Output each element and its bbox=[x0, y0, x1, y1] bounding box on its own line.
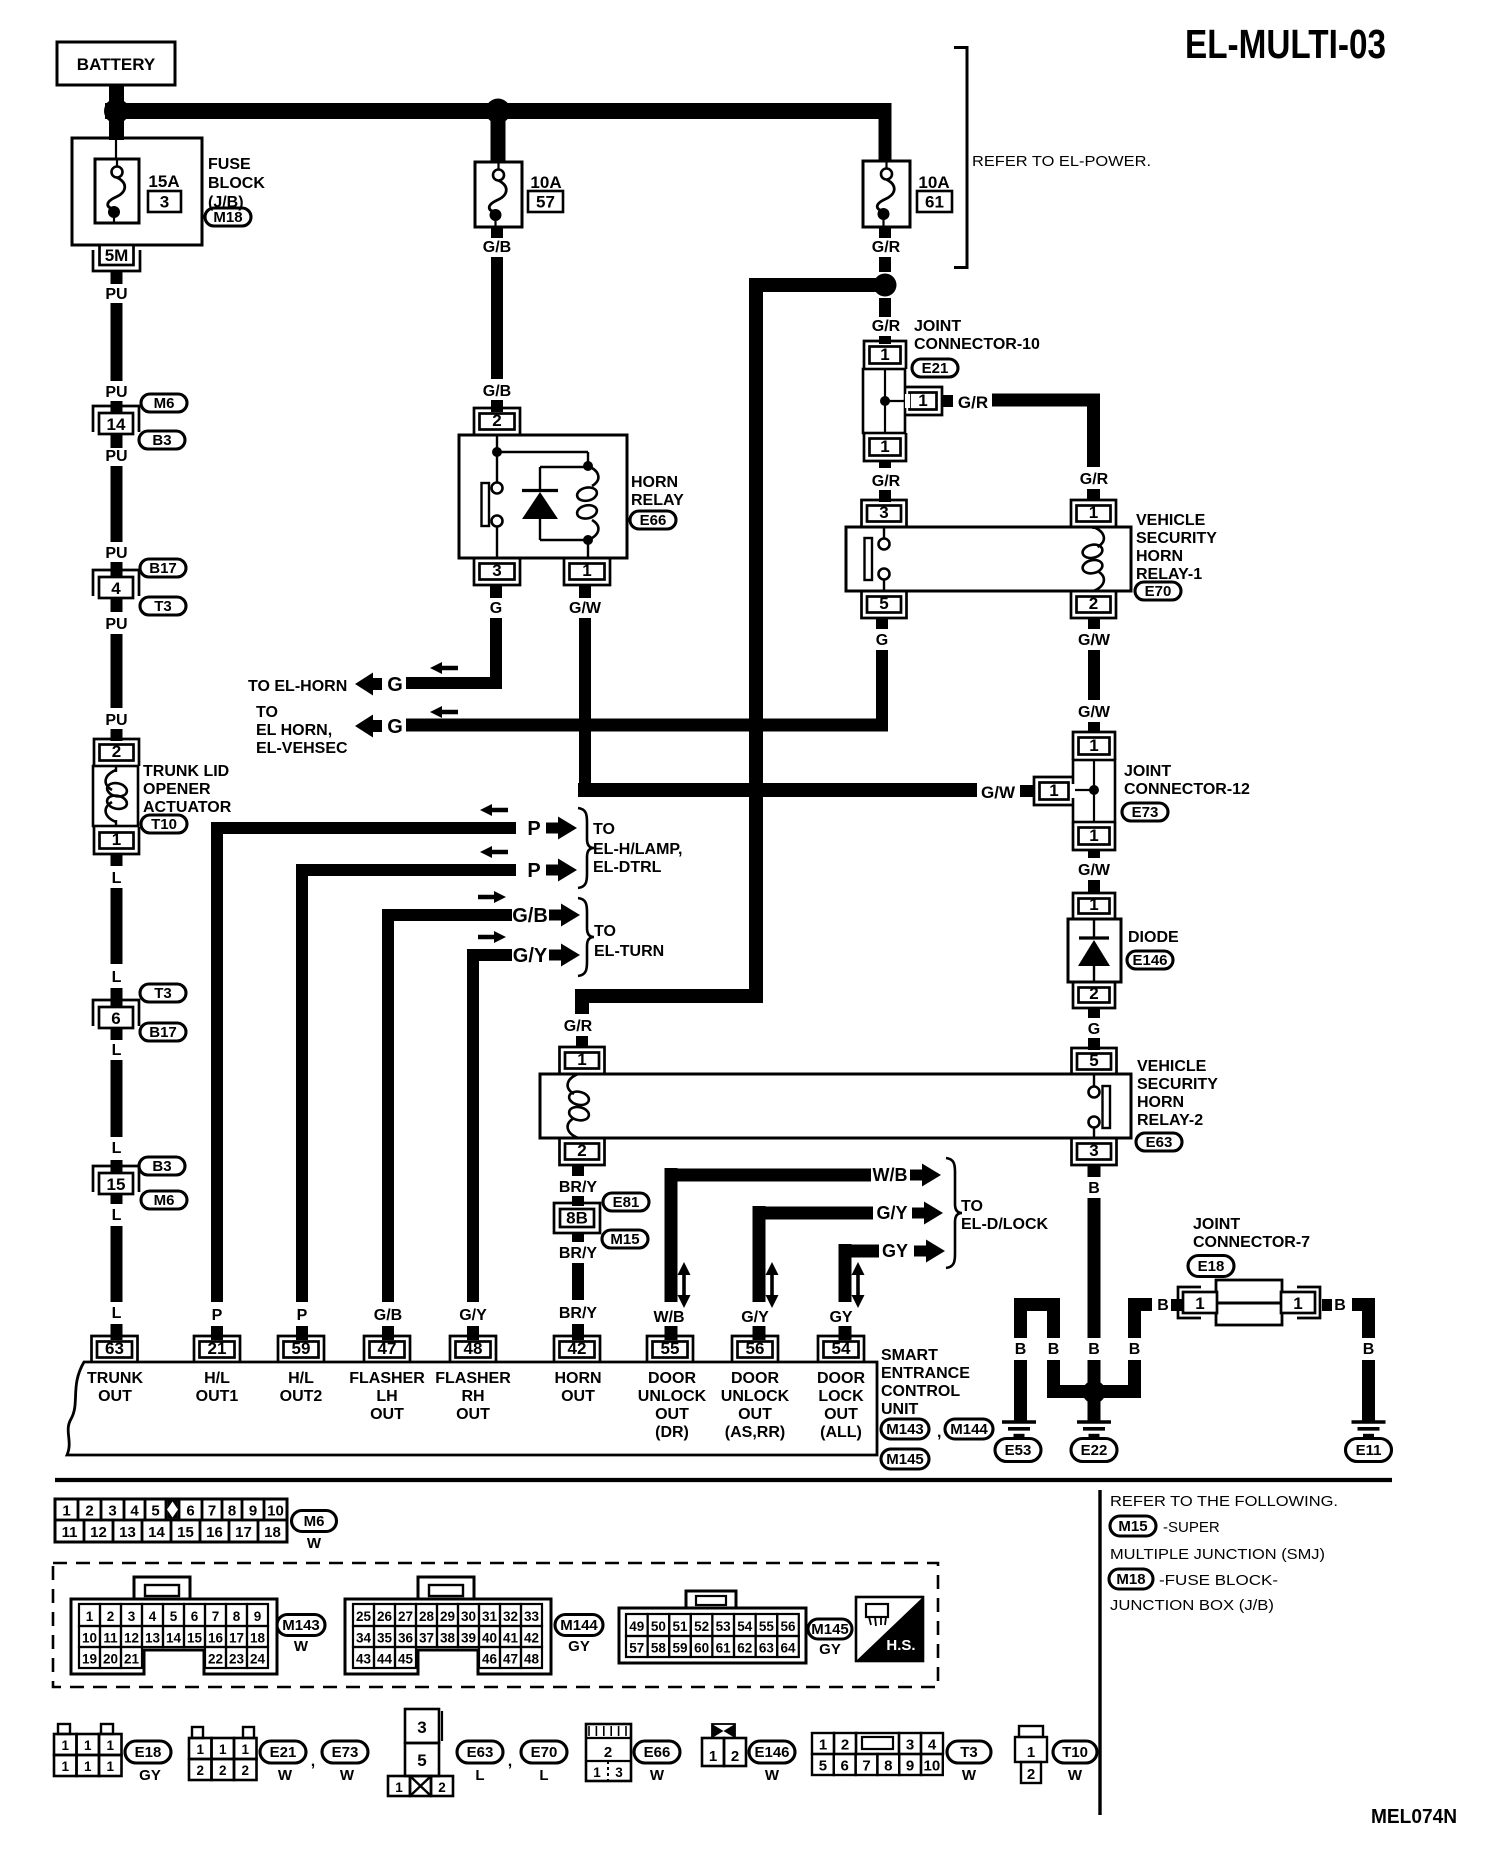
svg-text:L: L bbox=[112, 1140, 122, 1157]
connector ref T3 bbox=[140, 984, 186, 1002]
svg-text:FLASHER: FLASHER bbox=[435, 1370, 511, 1387]
connector 5M bbox=[93, 250, 140, 271]
wire stub above trunk lid actuator bbox=[111, 729, 123, 741]
svg-text:G/B: G/B bbox=[374, 1307, 402, 1324]
svg-text:5: 5 bbox=[417, 1751, 426, 1770]
svg-text:H/L: H/L bbox=[204, 1370, 230, 1387]
svg-text:G/Y: G/Y bbox=[741, 1309, 769, 1326]
svg-text:8B: 8B bbox=[566, 1209, 588, 1228]
svg-text:E70: E70 bbox=[1145, 583, 1172, 600]
connector M145 grid bbox=[686, 1591, 736, 1608]
svg-text:CONNECTOR-10: CONNECTOR-10 bbox=[914, 336, 1040, 353]
connector ref T10 bbox=[1053, 1741, 1097, 1763]
svg-text:14: 14 bbox=[107, 415, 126, 434]
connector T10 grid bbox=[1019, 1726, 1043, 1737]
wire stub above 8B bbox=[572, 1196, 584, 1206]
connector ref M145 bbox=[881, 1449, 929, 1469]
svg-text:E70: E70 bbox=[531, 1744, 558, 1761]
svg-text:E146: E146 bbox=[1132, 952, 1167, 969]
svg-text:13: 13 bbox=[145, 1631, 161, 1646]
arrow small above g wire bbox=[430, 662, 458, 674]
svg-text:47: 47 bbox=[378, 1339, 397, 1358]
svg-text:51: 51 bbox=[672, 1619, 688, 1634]
wire bus drop to fuse 57 bbox=[491, 119, 506, 163]
svg-text:T3: T3 bbox=[154, 985, 172, 1002]
svg-text:G: G bbox=[387, 716, 403, 738]
svg-text:RELAY-2: RELAY-2 bbox=[1137, 1112, 1203, 1129]
diode E146 box bbox=[1068, 919, 1121, 982]
svg-text:62: 62 bbox=[737, 1641, 752, 1656]
svg-text:OUT: OUT bbox=[561, 1388, 595, 1405]
svg-text:REFER TO EL-POWER.: REFER TO EL-POWER. bbox=[972, 153, 1151, 170]
control unit pin 59 bbox=[278, 1336, 324, 1363]
wire stub above diode bbox=[1088, 880, 1100, 894]
wire FLASHER RH rail bbox=[467, 949, 479, 1302]
svg-text:3: 3 bbox=[1089, 1141, 1098, 1160]
svg-text:6: 6 bbox=[841, 1758, 849, 1775]
svg-text:1: 1 bbox=[112, 830, 121, 849]
svg-text:PU: PU bbox=[105, 545, 127, 562]
wire stub out of joint connector-7 bbox=[1322, 1299, 1332, 1311]
connector ref M6 bbox=[141, 1191, 187, 1209]
wire stub above joint connector-10 bbox=[879, 336, 891, 344]
svg-text:35: 35 bbox=[377, 1631, 393, 1646]
wire FLASHER LH rail bbox=[382, 909, 394, 1302]
svg-text:(ALL): (ALL) bbox=[820, 1424, 862, 1441]
joint connector-10 body bbox=[863, 369, 905, 433]
svg-text:15: 15 bbox=[177, 1524, 194, 1541]
svg-text:EL HORN,: EL HORN, bbox=[256, 722, 332, 739]
wire stub above pin 54 bbox=[839, 1326, 852, 1340]
separator line bbox=[55, 1478, 1392, 1482]
svg-text:E22: E22 bbox=[1081, 1442, 1108, 1459]
svg-text:G/R: G/R bbox=[1080, 471, 1109, 488]
svg-text:W: W bbox=[278, 1767, 293, 1784]
svg-text:M144: M144 bbox=[560, 1617, 598, 1634]
svg-text:2: 2 bbox=[196, 1763, 204, 1778]
svg-text:HORN: HORN bbox=[631, 474, 678, 491]
svg-text:FLASHER: FLASHER bbox=[349, 1370, 425, 1387]
connector ref E146 bbox=[749, 1741, 795, 1763]
svg-text:1: 1 bbox=[1089, 503, 1098, 522]
svg-text:GY: GY bbox=[882, 1241, 908, 1261]
svg-text:LOCK: LOCK bbox=[818, 1388, 864, 1405]
arrow W/B to el-d/lock bbox=[910, 1164, 941, 1187]
svg-text:7: 7 bbox=[208, 1503, 216, 1520]
wire main battery bus bbox=[105, 103, 892, 119]
svg-text:T3: T3 bbox=[960, 1744, 978, 1761]
wire G/B segment bbox=[491, 257, 503, 379]
arrow small right 1 bbox=[478, 891, 506, 903]
svg-text:TO: TO bbox=[594, 923, 616, 940]
svg-text:TO: TO bbox=[961, 1198, 983, 1215]
wire stub into side pin bbox=[1020, 785, 1033, 797]
svg-text:11: 11 bbox=[62, 1524, 78, 1541]
svg-text:GY: GY bbox=[829, 1309, 852, 1326]
svg-text:HORN: HORN bbox=[1136, 548, 1183, 565]
wire GY vertical bbox=[839, 1244, 852, 1302]
svg-text:(AS,RR): (AS,RR) bbox=[725, 1424, 785, 1441]
svg-text:G/W: G/W bbox=[1078, 862, 1111, 879]
svg-text:W: W bbox=[650, 1767, 665, 1784]
relay-1 pin 5 bbox=[862, 591, 907, 618]
svg-text:M143: M143 bbox=[282, 1617, 320, 1634]
wire G/R trunk horizontal to relay-2 bbox=[575, 989, 763, 1003]
svg-text:27: 27 bbox=[398, 1609, 413, 1624]
wire G below relay-1 pin 5 bbox=[876, 650, 888, 731]
svg-text:54: 54 bbox=[832, 1339, 851, 1358]
svg-text:JUNCTION BOX (J/B): JUNCTION BOX (J/B) bbox=[1110, 1597, 1274, 1614]
horn relay E66 box bbox=[459, 435, 627, 558]
arrow small left 2 bbox=[480, 846, 508, 858]
svg-text:B: B bbox=[1363, 1341, 1375, 1358]
relay-1 pin 3 bbox=[862, 500, 907, 527]
svg-text:14: 14 bbox=[166, 1631, 182, 1646]
wire PU segment bbox=[111, 634, 123, 708]
svg-text:DOOR: DOOR bbox=[731, 1370, 779, 1387]
connector ref T10 bbox=[141, 815, 187, 833]
svg-text:B: B bbox=[1157, 1297, 1169, 1314]
control unit pin 56 bbox=[732, 1336, 778, 1363]
svg-text:OUT: OUT bbox=[456, 1406, 490, 1423]
svg-text:46: 46 bbox=[482, 1652, 498, 1667]
joint connector-10 pin 1 top bbox=[864, 341, 906, 369]
connector ref M144 bbox=[555, 1615, 603, 1636]
svg-text:30: 30 bbox=[461, 1609, 476, 1624]
svg-text:G/B: G/B bbox=[512, 905, 548, 927]
wire B right branch to junction bbox=[1128, 1298, 1141, 1338]
svg-text:EL-MULTI-03: EL-MULTI-03 bbox=[1185, 21, 1386, 67]
svg-text:1: 1 bbox=[106, 1759, 114, 1774]
wire stub below joint connector-10 bbox=[879, 461, 891, 468]
control unit pin 63 bbox=[92, 1336, 138, 1363]
arrow G/Y to el-turn bbox=[549, 944, 580, 967]
svg-text:SECURITY: SECURITY bbox=[1136, 530, 1217, 547]
wire stub above pin 42 bbox=[572, 1324, 584, 1340]
svg-text:16: 16 bbox=[208, 1631, 224, 1646]
svg-text:JOINT: JOINT bbox=[914, 318, 961, 335]
wire stub below 5M bbox=[111, 272, 123, 284]
svg-text:44: 44 bbox=[377, 1652, 393, 1667]
svg-text:1: 1 bbox=[593, 1765, 601, 1780]
relay-1 coil bbox=[1092, 527, 1094, 529]
svg-text:31: 31 bbox=[482, 1609, 498, 1624]
wire W/B horizontal bbox=[665, 1169, 872, 1182]
wire stub into fuse block bbox=[109, 111, 124, 140]
connector ref M18 bbox=[1109, 1569, 1153, 1589]
svg-text:P: P bbox=[527, 818, 540, 840]
svg-text:60: 60 bbox=[694, 1641, 709, 1656]
connector ref E73 bbox=[1122, 803, 1168, 821]
svg-text:G/W: G/W bbox=[981, 783, 1016, 802]
wire B to ground E11 bbox=[1352, 1298, 1375, 1311]
arrow small left 1 bbox=[480, 804, 508, 816]
svg-text:E73: E73 bbox=[1132, 804, 1159, 821]
connector ref B3 bbox=[139, 431, 185, 449]
svg-text:41: 41 bbox=[503, 1631, 519, 1646]
svg-text:G/R: G/R bbox=[564, 1018, 593, 1035]
svg-text:56: 56 bbox=[780, 1619, 796, 1634]
wire stub into 15 bbox=[111, 1160, 123, 1174]
svg-text:P: P bbox=[297, 1307, 308, 1324]
fuse number box 3 bbox=[148, 191, 181, 212]
svg-text:OUT: OUT bbox=[370, 1406, 404, 1423]
wire G/Y horizontal bbox=[753, 1207, 874, 1220]
svg-text:1: 1 bbox=[241, 1742, 249, 1757]
svg-text:M6: M6 bbox=[154, 1192, 175, 1209]
connector ref E21 bbox=[260, 1741, 306, 1763]
horn relay coil bbox=[588, 466, 598, 486]
joint connector-7 body bbox=[1216, 1280, 1282, 1325]
connector 14 bbox=[93, 406, 139, 432]
svg-text:15: 15 bbox=[187, 1631, 203, 1646]
wire stub below relay-1 pin 5 bbox=[876, 618, 888, 629]
connector ref M145 bbox=[808, 1619, 852, 1639]
svg-text:8: 8 bbox=[228, 1503, 236, 1520]
joint connector-12 pin 1 top bbox=[1073, 732, 1115, 760]
arrow G/Y to el-d/lock bbox=[912, 1202, 943, 1225]
connector ref E73 bbox=[322, 1741, 368, 1763]
svg-text:W: W bbox=[1068, 1767, 1083, 1784]
svg-text:CONNECTOR-7: CONNECTOR-7 bbox=[1193, 1234, 1310, 1251]
svg-text:42: 42 bbox=[568, 1339, 587, 1358]
svg-text:-FUSE BLOCK-: -FUSE BLOCK- bbox=[1159, 1572, 1278, 1589]
svg-text:1: 1 bbox=[1089, 895, 1098, 914]
connector ref B17 bbox=[140, 1023, 186, 1041]
relay-2 switch bbox=[1093, 1074, 1095, 1086]
wire stub below relay-2 pin 3 bbox=[1088, 1165, 1101, 1177]
svg-text:M15: M15 bbox=[1118, 1518, 1147, 1535]
wire H/L OUT1 rail bbox=[211, 822, 223, 1302]
svg-text:57: 57 bbox=[536, 193, 555, 212]
connector 4 bbox=[93, 570, 139, 596]
svg-text:PU: PU bbox=[105, 616, 127, 633]
fuse 15A 3 bbox=[115, 140, 117, 159]
svg-text:EL-TURN: EL-TURN bbox=[594, 943, 664, 960]
connector ref T3 bbox=[947, 1741, 991, 1763]
arrow to el-horn el-vehsec bbox=[355, 715, 382, 738]
ground E22 symbol bbox=[1077, 1420, 1111, 1424]
vertical divider line bbox=[1098, 1490, 1101, 1815]
wire B left branch bbox=[1014, 1298, 1060, 1311]
fuse block M18 outline bbox=[72, 138, 202, 245]
svg-text:45: 45 bbox=[398, 1652, 414, 1667]
arrow to el-horn bbox=[355, 673, 382, 696]
svg-text:T3: T3 bbox=[154, 598, 172, 615]
vehicle security horn relay-2 E63 box bbox=[540, 1074, 1131, 1138]
svg-text:W/B: W/B bbox=[873, 1165, 908, 1185]
svg-text:CONTROL: CONTROL bbox=[881, 1383, 960, 1400]
connector ref B3 bbox=[139, 1157, 185, 1175]
wire G/W horizontal to joint connector-12 bbox=[578, 783, 977, 797]
wire stub above relay-2 pin 5 bbox=[1088, 1038, 1100, 1050]
svg-text:FUSE: FUSE bbox=[208, 156, 251, 173]
svg-text:9: 9 bbox=[249, 1503, 257, 1520]
svg-text:W: W bbox=[765, 1767, 780, 1784]
connector E21/E73 grid bbox=[192, 1727, 203, 1738]
connector ref M6 bbox=[141, 394, 187, 412]
svg-text:EL-D/LOCK: EL-D/LOCK bbox=[961, 1216, 1049, 1233]
fuse 10A 61 bbox=[863, 161, 910, 227]
svg-text:42: 42 bbox=[524, 1631, 539, 1646]
trunk lid opener actuator coil box bbox=[93, 766, 138, 826]
trunk lid opener actuator pin 2 bbox=[94, 739, 139, 766]
wire stub below relay-1 pin 2 bbox=[1088, 618, 1100, 629]
svg-text:M15: M15 bbox=[610, 1231, 639, 1248]
svg-text:2: 2 bbox=[1089, 594, 1098, 613]
wire stub into 14 bbox=[111, 401, 123, 414]
svg-text:DOOR: DOOR bbox=[817, 1370, 865, 1387]
svg-text:5: 5 bbox=[170, 1609, 178, 1624]
wire stub into joint connector-7 bbox=[1171, 1299, 1182, 1311]
svg-text:OUT: OUT bbox=[98, 1388, 132, 1405]
arrow GY to el-d/lock bbox=[914, 1240, 945, 1263]
wire bus drop to fuse 61 bbox=[879, 111, 892, 162]
connector ref M143 bbox=[277, 1615, 325, 1636]
relay-2 pin 1 bbox=[560, 1047, 605, 1074]
svg-text:G/W: G/W bbox=[1078, 632, 1111, 649]
svg-text:5M: 5M bbox=[105, 246, 129, 265]
svg-text:JOINT: JOINT bbox=[1193, 1216, 1240, 1233]
svg-text:47: 47 bbox=[503, 1652, 518, 1667]
svg-text:DIODE: DIODE bbox=[1128, 929, 1179, 946]
wire stub below diode bbox=[1088, 1008, 1100, 1018]
svg-text:18: 18 bbox=[250, 1631, 266, 1646]
wire H/L OUT2 rail bbox=[296, 864, 308, 1302]
wire stub to relay-2 pin 1 bbox=[576, 1036, 588, 1048]
wire G/R drop to relay-2 pin 1 bbox=[575, 990, 589, 1014]
svg-text:L: L bbox=[112, 1042, 122, 1059]
svg-text:1: 1 bbox=[1089, 736, 1098, 755]
svg-text:G/Y: G/Y bbox=[459, 1307, 487, 1324]
svg-text:8: 8 bbox=[884, 1758, 892, 1775]
wire stub above pin 56 bbox=[753, 1326, 766, 1340]
wire PU segment bbox=[111, 303, 123, 381]
wire G/R trunk vertical bbox=[749, 278, 763, 996]
control unit pin 55 bbox=[647, 1336, 693, 1363]
svg-text:14: 14 bbox=[148, 1524, 165, 1541]
svg-text:10A: 10A bbox=[530, 173, 561, 192]
svg-text:EL-H/LAMP,: EL-H/LAMP, bbox=[593, 841, 682, 858]
svg-text:RH: RH bbox=[461, 1388, 484, 1405]
svg-text:2: 2 bbox=[112, 742, 121, 761]
svg-text:ENTRANCE: ENTRANCE bbox=[881, 1365, 970, 1382]
fuse number box 61 bbox=[917, 191, 952, 212]
svg-text:57: 57 bbox=[629, 1641, 644, 1656]
arrow P2 to el-h/lamp bbox=[546, 859, 577, 882]
svg-text:E21: E21 bbox=[922, 360, 949, 377]
bracket refer to el-power bbox=[954, 48, 967, 268]
svg-text:OPENER: OPENER bbox=[143, 781, 211, 798]
svg-text:G/B: G/B bbox=[483, 383, 511, 400]
connector ref E18 bbox=[1188, 1256, 1234, 1277]
svg-text:1: 1 bbox=[577, 1050, 586, 1069]
control unit pin 48 bbox=[450, 1336, 496, 1363]
wire L segment bbox=[111, 1060, 123, 1137]
node bus fuse-57 junction bbox=[486, 99, 511, 124]
svg-text:OUT2: OUT2 bbox=[280, 1388, 323, 1405]
svg-text:48: 48 bbox=[464, 1339, 483, 1358]
wire stub above joint connector-12 bbox=[1088, 722, 1100, 733]
connector M143 grid bbox=[134, 1577, 190, 1599]
svg-text:G: G bbox=[387, 674, 403, 696]
svg-text:SMART: SMART bbox=[881, 1347, 938, 1364]
svg-text:MULTIPLE JUNCTION (SMJ): MULTIPLE JUNCTION (SMJ) bbox=[1110, 1546, 1325, 1563]
svg-text:49: 49 bbox=[629, 1619, 644, 1634]
svg-text:G/R: G/R bbox=[872, 318, 901, 335]
svg-text:40: 40 bbox=[482, 1631, 497, 1646]
svg-text:2: 2 bbox=[85, 1503, 93, 1520]
node battery bus junction bbox=[104, 99, 129, 124]
svg-text:PU: PU bbox=[105, 448, 127, 465]
relay-2 pin 3 bbox=[1072, 1138, 1117, 1165]
vehicle security horn relay-1 E70 box bbox=[846, 527, 1131, 591]
svg-text:11: 11 bbox=[103, 1631, 118, 1646]
connector ref E22 bbox=[1071, 1439, 1117, 1462]
svg-text:1: 1 bbox=[1049, 781, 1058, 800]
connector T3 grid bbox=[812, 1733, 834, 1754]
double arrow W/B bbox=[682, 1271, 686, 1299]
svg-text:4: 4 bbox=[130, 1503, 139, 1520]
svg-text:SECURITY: SECURITY bbox=[1137, 1076, 1218, 1093]
svg-text:1: 1 bbox=[582, 561, 591, 580]
joint connector-12 pin 1 bottom bbox=[1073, 822, 1115, 850]
svg-text:4: 4 bbox=[928, 1737, 937, 1754]
wire stub below horn relay pin 1 bbox=[579, 585, 591, 598]
svg-text:3: 3 bbox=[128, 1609, 136, 1624]
svg-text:1: 1 bbox=[1089, 826, 1098, 845]
joint connector-7 right pin 1 bbox=[1297, 1287, 1320, 1318]
joint connector-10 side pin 1 bbox=[904, 387, 942, 415]
svg-text:20: 20 bbox=[103, 1652, 118, 1667]
svg-text:B: B bbox=[1334, 1297, 1346, 1314]
wire W/B vertical bbox=[665, 1168, 678, 1302]
svg-text:UNLOCK: UNLOCK bbox=[638, 1388, 707, 1405]
diode pin 2 bbox=[1073, 982, 1115, 1008]
svg-text:W/B: W/B bbox=[653, 1309, 684, 1326]
horn relay pin 3 bbox=[474, 558, 520, 585]
relay-1 switch bbox=[883, 527, 885, 538]
svg-text:63: 63 bbox=[759, 1641, 775, 1656]
svg-text:B: B bbox=[1129, 1341, 1141, 1358]
svg-text:BLOCK: BLOCK bbox=[208, 175, 265, 192]
wire PU segment bbox=[111, 466, 123, 542]
svg-text:B17: B17 bbox=[149, 560, 177, 577]
svg-text:E18: E18 bbox=[135, 1744, 162, 1761]
svg-text:52: 52 bbox=[694, 1619, 709, 1634]
svg-text:E18: E18 bbox=[1198, 1258, 1225, 1275]
svg-text:53: 53 bbox=[716, 1619, 732, 1634]
svg-text:3: 3 bbox=[615, 1765, 623, 1780]
svg-text:L: L bbox=[112, 1305, 122, 1322]
svg-text:3: 3 bbox=[108, 1503, 116, 1520]
svg-text:E81: E81 bbox=[613, 1194, 640, 1211]
ground E53 symbol bbox=[1002, 1420, 1036, 1424]
arrow P to el-h/lamp bbox=[546, 817, 577, 840]
svg-text:M144: M144 bbox=[950, 1421, 988, 1438]
smart entrance control unit box bbox=[67, 1362, 877, 1455]
horn relay pin 2 bbox=[474, 408, 520, 435]
wire stub below fuse 57 bbox=[491, 227, 503, 238]
svg-text:,: , bbox=[508, 1753, 512, 1770]
svg-text:19: 19 bbox=[82, 1652, 97, 1667]
svg-text:54: 54 bbox=[737, 1619, 753, 1634]
svg-text:21: 21 bbox=[124, 1652, 140, 1667]
brace to el-turn bbox=[578, 898, 594, 976]
connector ref B17 bbox=[140, 559, 186, 577]
wire stub below fuse 61 bbox=[879, 227, 891, 238]
svg-text:B3: B3 bbox=[152, 432, 171, 449]
